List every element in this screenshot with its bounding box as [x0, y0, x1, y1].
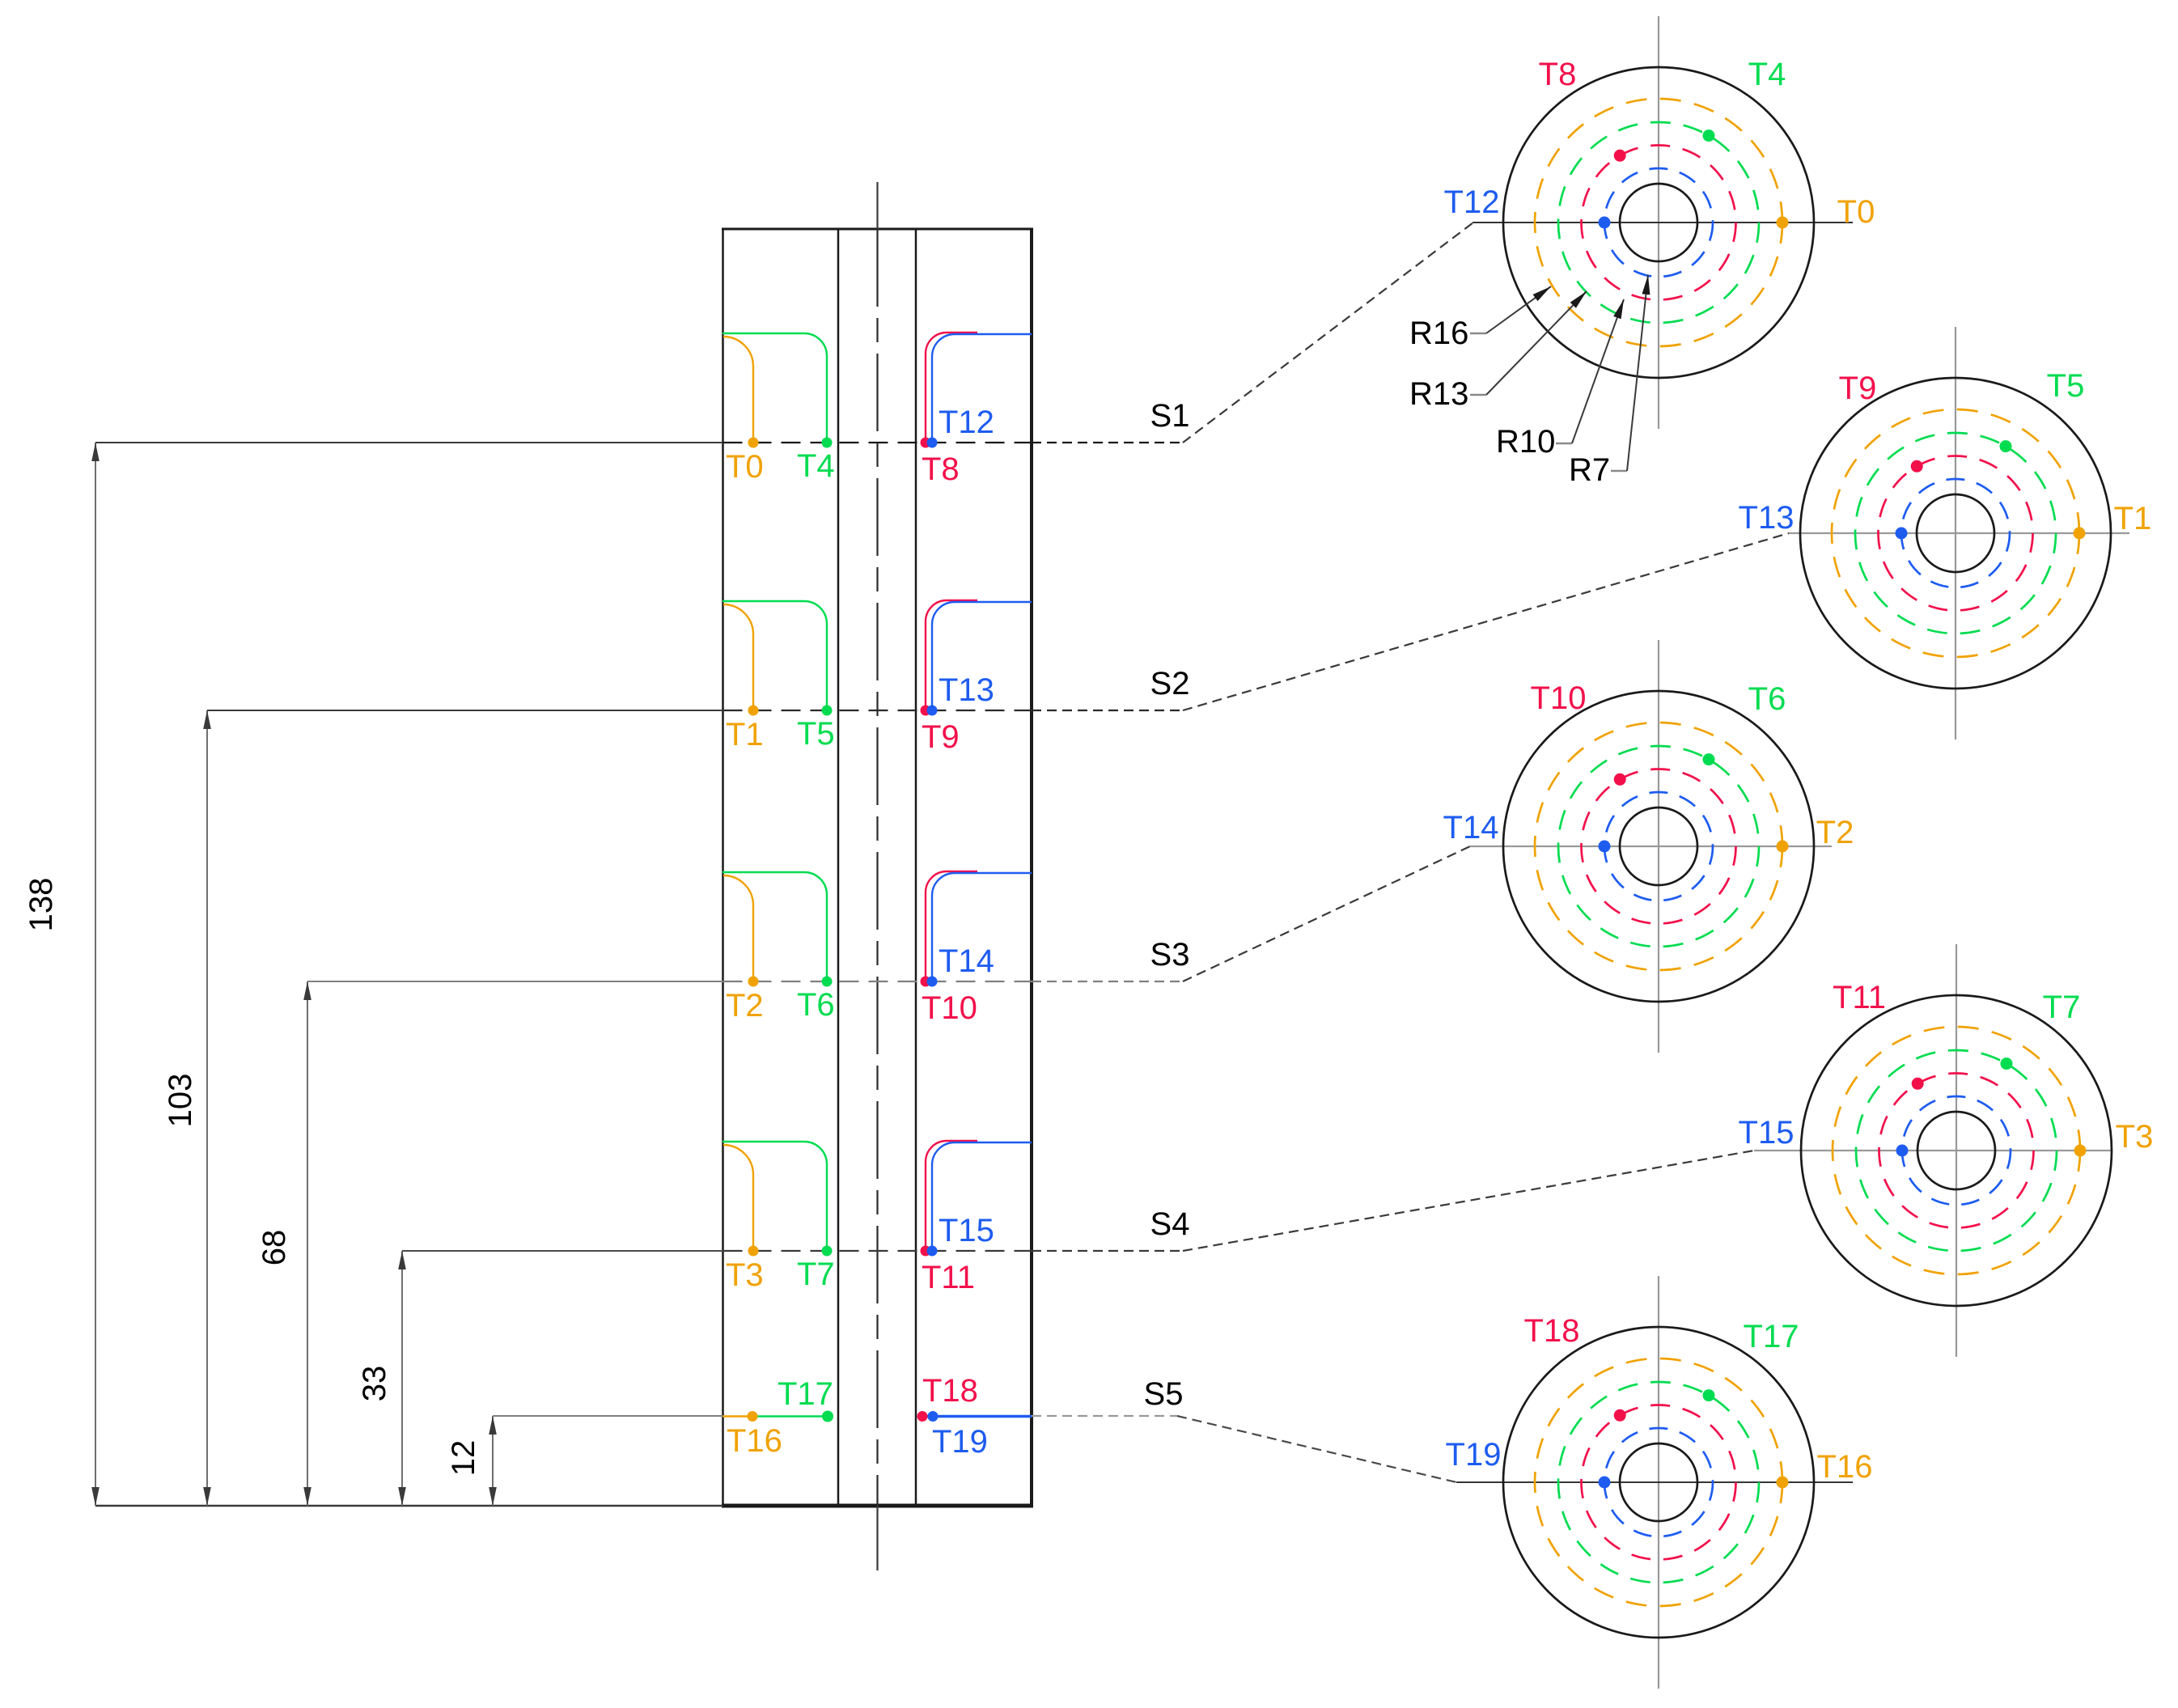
- T2 dot at 0 deg: [1777, 841, 1789, 853]
- svg-text:T7: T7: [2043, 990, 2081, 1025]
- T7 dot at 60 deg: [2001, 1057, 2013, 1070]
- svg-text:T18: T18: [922, 1373, 978, 1409]
- section view circle 3: outer boundary: [1503, 691, 1814, 1002]
- thermocouple T19 wire (blue): [927, 1415, 1032, 1418]
- thermocouple T6 junction dot: [822, 977, 833, 987]
- svg-text:T8: T8: [922, 451, 960, 487]
- thermocouple T17 wire (green): [752, 1415, 828, 1418]
- section view circle 5: R7 blue dashed circle: [1604, 1428, 1713, 1536]
- section view circle 1: center hole: [1620, 184, 1697, 261]
- svg-text:T13: T13: [939, 672, 994, 708]
- svg-text:T6: T6: [1748, 681, 1786, 717]
- section connector S5 to circle: [1177, 1416, 1456, 1482]
- T15 dot at 180 deg: [1896, 1145, 1909, 1157]
- section view circle 5: R13 green dashed circle: [1558, 1382, 1759, 1583]
- thermocouple T13 junction dot: [927, 706, 938, 716]
- specimen left outer wall line: [722, 229, 724, 1506]
- svg-text:T14: T14: [1443, 810, 1499, 846]
- svg-text:T13: T13: [1739, 500, 1795, 536]
- svg-text:T3: T3: [2116, 1119, 2154, 1155]
- thermocouple T18 junction dot: [917, 1411, 928, 1422]
- dimension 138 vertical line: [95, 443, 96, 1506]
- svg-text:33: 33: [357, 1366, 392, 1402]
- T12 dot at 180 deg: [1599, 217, 1611, 229]
- extension line S3 level: [307, 981, 723, 982]
- T19 dot at 180 deg: [1599, 1477, 1611, 1489]
- svg-text:T11: T11: [1833, 980, 1886, 1015]
- section line S4 dashed through specimen: [723, 1250, 1032, 1252]
- thermocouple T16 wire (orange): [723, 1415, 752, 1418]
- section view circle 2: outer boundary: [1800, 378, 2111, 689]
- svg-text:T3: T3: [726, 1257, 764, 1293]
- dimension 68 vertical line: [307, 981, 308, 1506]
- specimen top edge: [722, 228, 1033, 231]
- svg-text:S5: S5: [1144, 1376, 1184, 1412]
- svg-text:T2: T2: [726, 988, 764, 1024]
- T1 dot at 0 deg: [2074, 528, 2086, 540]
- thermocouple T7 junction dot: [822, 1246, 833, 1257]
- section view circle 5: outer boundary: [1503, 1327, 1814, 1638]
- section connector S2 to circle: [1183, 533, 1789, 710]
- dimension 103 vertical line: [206, 710, 208, 1506]
- svg-text:T0: T0: [1837, 194, 1875, 230]
- section line S3 dashed to label: [1032, 981, 1183, 982]
- section view circle 2: center hole: [1917, 494, 1994, 572]
- svg-text:T9: T9: [1839, 371, 1877, 406]
- svg-text:T6: T6: [797, 987, 835, 1023]
- section view circle 5: R16 orange dashed circle: [1535, 1358, 1782, 1606]
- thermocouple T15 junction dot: [927, 1246, 938, 1257]
- svg-text:138: 138: [23, 878, 59, 932]
- T9 dot at 120 deg: [1911, 460, 1923, 473]
- section line S3 dashed through specimen: [723, 981, 1032, 982]
- thermocouple T15 wire (blue): [932, 1142, 1032, 1251]
- section line S2 dashed to label: [1032, 710, 1183, 711]
- thermocouple T19 junction dot: [928, 1411, 939, 1422]
- section view circle 4: R13 green dashed circle: [1856, 1050, 2057, 1251]
- T16 dot at 0 deg: [1777, 1477, 1789, 1489]
- thermocouple T4 wire (green): [722, 333, 827, 443]
- section view circle 2: R10 red dashed circle: [1879, 456, 2033, 611]
- svg-text:T10: T10: [1531, 680, 1587, 716]
- extension line S5 level: [493, 1415, 723, 1417]
- thermocouple T14 junction dot: [927, 977, 938, 987]
- section view circle 2: R7 blue dashed circle: [1901, 479, 2010, 587]
- svg-text:T10: T10: [922, 990, 977, 1026]
- section view circle 5: horizontal centerline: [1456, 1481, 1853, 1483]
- extension line S1 level: [95, 442, 723, 443]
- section view circle 3: R7 blue dashed circle: [1604, 792, 1713, 901]
- thermocouple T9 junction dot: [921, 706, 931, 716]
- thermocouple T3 junction dot: [748, 1246, 759, 1257]
- svg-text:T16: T16: [727, 1423, 782, 1459]
- svg-text:T4: T4: [797, 448, 835, 484]
- T13 dot at 180 deg: [1896, 528, 1908, 540]
- svg-text:S3: S3: [1150, 937, 1190, 973]
- svg-text:T7: T7: [797, 1257, 835, 1292]
- section line S1 dashed through specimen: [723, 442, 1032, 443]
- T3 dot at 0 deg: [2074, 1145, 2087, 1157]
- thermocouple T0 wire (orange): [723, 337, 753, 443]
- thermocouple T12 junction dot: [927, 438, 938, 448]
- svg-text:T17: T17: [1744, 1319, 1799, 1354]
- T0 dot at 0 deg: [1777, 217, 1789, 229]
- section view circle 4: R16 orange dashed circle: [1833, 1027, 2080, 1274]
- svg-text:T5: T5: [2047, 368, 2085, 404]
- T4 dot at 60 deg: [1703, 129, 1715, 142]
- section view circle 3: R13 green dashed circle: [1558, 746, 1759, 947]
- svg-text:T18: T18: [1524, 1313, 1580, 1349]
- thermocouple T17 junction dot: [822, 1411, 833, 1422]
- svg-text:T14: T14: [939, 943, 994, 979]
- leader line R7: [1611, 470, 1627, 472]
- leader line R16: [1470, 333, 1486, 334]
- svg-text:T2: T2: [1816, 815, 1854, 850]
- svg-text:R13: R13: [1409, 376, 1468, 412]
- section view circle 3: center hole: [1620, 807, 1697, 885]
- thermocouple T10 wire (red): [926, 871, 977, 981]
- T18 dot at 120 deg: [1614, 1409, 1626, 1422]
- section view circle 1: vertical centerline: [1658, 16, 1659, 429]
- svg-text:T17: T17: [778, 1376, 833, 1412]
- thermocouple T9 wire (red): [926, 600, 977, 710]
- dimension 12 vertical line: [492, 1416, 494, 1506]
- T11 dot at 120 deg: [1912, 1078, 1924, 1090]
- svg-text:S1: S1: [1150, 398, 1190, 434]
- svg-text:R16: R16: [1409, 316, 1468, 351]
- thermocouple T13 wire (blue): [932, 602, 1032, 710]
- svg-text:S2: S2: [1150, 666, 1190, 701]
- specimen inner-left bore line: [837, 229, 840, 1506]
- leader line R13: [1470, 394, 1486, 396]
- svg-text:103: 103: [163, 1074, 198, 1128]
- thermocouple T1 junction dot: [748, 706, 759, 716]
- section line S1 dashed to label: [1032, 442, 1183, 443]
- svg-text:T19: T19: [1446, 1437, 1502, 1473]
- svg-text:T12: T12: [1444, 184, 1500, 220]
- section view circle 1: horizontal centerline: [1472, 222, 1853, 223]
- T14 dot at 180 deg: [1599, 841, 1611, 853]
- svg-text:T16: T16: [1817, 1449, 1873, 1485]
- svg-text:T1: T1: [2114, 501, 2152, 536]
- svg-text:T4: T4: [1748, 57, 1786, 92]
- thermocouple T4 junction dot: [822, 438, 833, 448]
- thermocouple T3 wire (orange): [723, 1145, 753, 1251]
- thermocouple T8 wire (red): [926, 333, 977, 443]
- section connector S4 to circle: [1183, 1151, 1754, 1251]
- section view circle 1: R13 green dashed circle: [1558, 122, 1759, 323]
- section view circle 4: R10 red dashed circle: [1879, 1074, 2034, 1228]
- svg-text:T12: T12: [939, 405, 994, 440]
- section view circle 2: R16 orange dashed circle: [1832, 409, 2079, 657]
- section view circle 2: vertical centerline: [1955, 327, 1956, 740]
- extension line S2 level: [207, 710, 723, 711]
- section view circle 1: R10 red dashed circle: [1582, 146, 1736, 300]
- section view circle 4: center hole: [1917, 1112, 1995, 1189]
- thermocouple T16 junction dot: [748, 1411, 758, 1422]
- section view circle 1: R7 blue dashed circle: [1604, 168, 1713, 277]
- svg-text:T9: T9: [922, 719, 960, 755]
- section view circle 5: center hole: [1620, 1443, 1697, 1521]
- svg-text:T1: T1: [726, 717, 764, 752]
- thermocouple T5 junction dot: [822, 706, 833, 716]
- section view circle 5: vertical centerline: [1658, 1276, 1659, 1689]
- section view circle 3: horizontal centerline: [1470, 846, 1832, 847]
- thermocouple T7 wire (green): [722, 1142, 827, 1251]
- section line S5 dashed to label: [1032, 1415, 1177, 1417]
- section view circle 2: horizontal centerline: [1789, 532, 2129, 534]
- dimension 33 vertical line: [401, 1251, 403, 1506]
- section view circle 4: vertical centerline: [1956, 944, 1957, 1357]
- leader line R10: [1556, 443, 1572, 444]
- baseline extension at bottom: [95, 1505, 723, 1507]
- section view circle 5: R10 red dashed circle: [1582, 1405, 1736, 1560]
- specimen bottom edge: [722, 1504, 1033, 1508]
- section view circle 4: horizontal centerline: [1754, 1150, 2112, 1151]
- section view circle 3: R10 red dashed circle: [1582, 769, 1736, 924]
- thermocouple T6 wire (green): [722, 872, 827, 981]
- section view circle 2: R13 green dashed circle: [1855, 433, 2056, 634]
- svg-text:S4: S4: [1150, 1206, 1190, 1242]
- T5 dot at 60 deg: [2000, 440, 2012, 452]
- section connector S1 to circle: [1183, 223, 1473, 443]
- thermocouple T1 wire (orange): [723, 604, 753, 710]
- thermocouple T2 junction dot: [748, 977, 759, 987]
- svg-text:T5: T5: [797, 716, 835, 752]
- svg-text:12: 12: [446, 1440, 481, 1477]
- thermocouple T10 junction dot: [921, 977, 931, 987]
- section view circle 1: outer boundary: [1503, 67, 1814, 378]
- specimen axis centerline: [876, 182, 878, 229]
- section line S2 dashed through specimen: [723, 710, 1032, 711]
- svg-text:T0: T0: [726, 449, 764, 485]
- specimen inner-right bore line: [915, 229, 917, 1506]
- thermocouple T2 wire (orange): [723, 875, 753, 981]
- T8 dot at 120 deg: [1614, 150, 1626, 162]
- svg-text:R10: R10: [1496, 424, 1555, 460]
- specimen right outer wall line: [1030, 229, 1033, 1506]
- thermocouple T5 wire (green): [722, 601, 827, 710]
- section line S4 dashed to label: [1032, 1250, 1183, 1252]
- section view circle 4: outer boundary: [1801, 995, 2112, 1306]
- svg-text:T11: T11: [922, 1260, 975, 1295]
- svg-text:T19: T19: [932, 1424, 988, 1460]
- section view circle 3: vertical centerline: [1658, 640, 1659, 1053]
- section view circle 1: R16 orange dashed circle: [1535, 99, 1782, 346]
- thermocouple T8 junction dot: [921, 438, 931, 448]
- thermocouple T11 junction dot: [921, 1246, 931, 1257]
- thermocouple T11 wire (red): [926, 1141, 977, 1251]
- section connector S3 to circle: [1183, 846, 1470, 981]
- extension line S4 level: [402, 1250, 723, 1252]
- svg-text:68: 68: [256, 1230, 292, 1266]
- T17 dot at 60 deg: [1703, 1389, 1715, 1401]
- thermocouple T0 junction dot: [748, 438, 759, 448]
- svg-text:R7: R7: [1569, 452, 1610, 488]
- thermocouple T12 wire (blue): [932, 334, 1032, 443]
- section view circle 4: R7 blue dashed circle: [1902, 1096, 2011, 1205]
- T6 dot at 60 deg: [1703, 753, 1715, 765]
- section view circle 3: R16 orange dashed circle: [1535, 723, 1782, 970]
- thermocouple T14 wire (blue): [932, 873, 1032, 981]
- T10 dot at 120 deg: [1614, 773, 1626, 786]
- svg-text:T8: T8: [1539, 57, 1577, 92]
- svg-text:T15: T15: [939, 1213, 994, 1248]
- svg-text:T15: T15: [1739, 1115, 1795, 1151]
